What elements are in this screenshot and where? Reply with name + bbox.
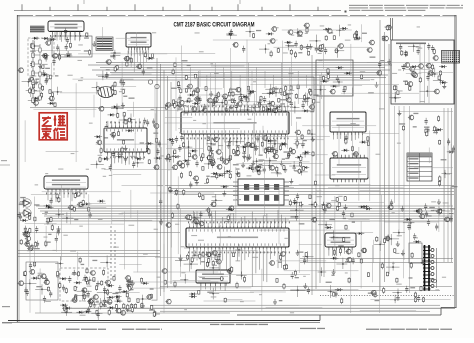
svg-text:CMT 2187 BASIC CIRCUIT DIAGRAM: CMT 2187 BASIC CIRCUIT DIAGRAM: [174, 22, 255, 29]
